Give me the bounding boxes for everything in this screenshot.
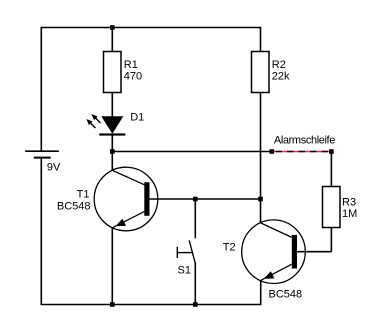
resistor R1 body [104,52,122,93]
wire T2 base lead [297,251,331,253]
svg-text:R3: R3 [342,196,356,208]
node alarm loop left terminal [270,149,275,154]
wire S1 lower [194,263,196,305]
node junction D1/mid rail [110,149,115,154]
LED D1 cathode bar [99,133,125,135]
transistor T2 base bar [292,235,297,269]
switch S1 actuator bar [177,252,192,254]
svg-text:22k: 22k [272,71,290,83]
transistor T1 emitter arrow [116,219,127,226]
wire left vertical upper [40,27,42,152]
LED D1 triangle [101,116,123,134]
transistor T2 emitter arrow [264,271,275,278]
wire T1 base rail [150,198,261,200]
transistor T2 circle [242,220,306,284]
transistor T1 emitter diagonal [113,211,145,227]
LED D1 arrow 1 [91,114,100,123]
wire T1 emitter down [111,228,113,305]
wire R1 to D1 [111,93,113,118]
svg-text:BC548: BC548 [269,288,303,300]
wire D1 cathode down [111,135,113,170]
switch S1 actuator tick [176,247,178,258]
node S1 bottom rail [193,302,198,307]
switch S1 blade [189,241,195,263]
svg-text:D1: D1 [130,112,144,124]
wire T2 emitter down to bottom rail [260,280,262,305]
wire alarm loop dashed (black dashes) [272,151,331,153]
battery B1 short plate (-) [34,157,51,159]
wire R3 branch from alarm loop [330,152,332,187]
node S1 top junction [193,197,198,202]
resistor R2 body [252,52,270,93]
transistor T1 collector diagonal [112,170,144,185]
resistor R3 body [323,187,341,228]
svg-text:T2: T2 [223,241,236,253]
transistor T2 emitter diagonal [261,264,292,280]
transistor T1 circle [94,167,158,231]
svg-text:R1: R1 [124,59,138,71]
wire alarm loop dashed (magenta base) [272,151,331,153]
wire left vertical lower [40,158,42,305]
svg-text:9V: 9V [47,161,61,173]
node alarm loop right terminal [329,149,334,154]
svg-text:470: 470 [124,71,142,83]
node T1 base / R2 junction [258,197,263,202]
svg-text:S1: S1 [178,264,191,276]
wire top rail [41,27,260,29]
svg-text:BC548: BC548 [57,201,91,213]
wire R2 down to T2 collector (crosses mid rail) [260,93,262,223]
node T1 emitter bottom rail [110,302,115,307]
svg-text:T1: T1 [77,189,90,201]
svg-text:1M: 1M [342,208,357,220]
battery B1 long plate (+) [25,150,59,152]
wire bottom rail [41,304,262,306]
wire R3 down to T2 base lead [330,228,332,252]
node junction R1 top rail [110,25,115,30]
wire R1 branch from top rail [111,28,113,52]
transistor T2 collector diagonal [261,223,292,238]
wire S1 upper [194,199,196,238]
svg-text:Alarmschleife: Alarmschleife [274,134,335,146]
LED D1 arrow 2 [86,119,95,128]
wire R2 branch from top rail [260,27,262,52]
wire mid rail (to alarm loop) [112,151,271,153]
transistor T1 base bar [144,182,149,216]
svg-text:R2: R2 [272,59,286,71]
